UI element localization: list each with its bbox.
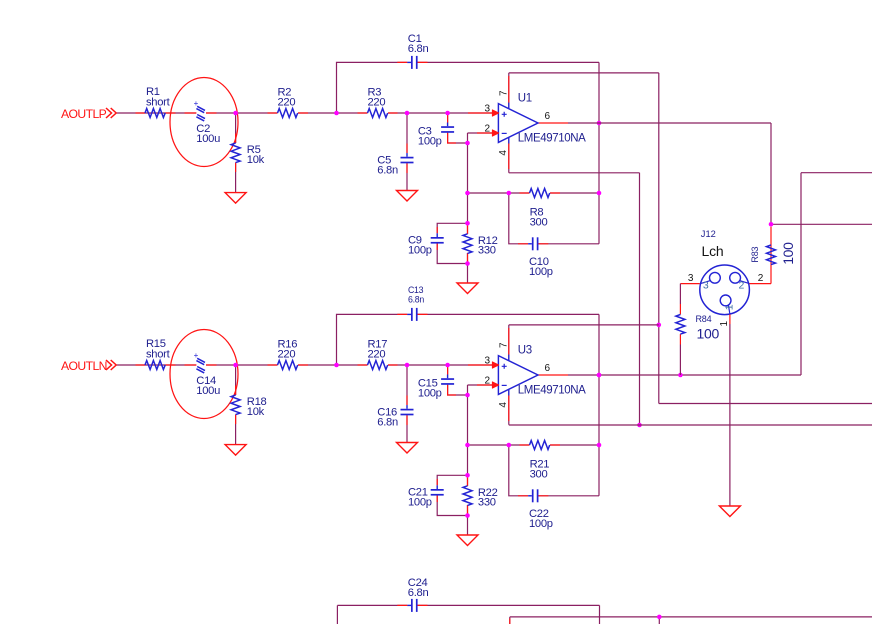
wire V- vertical — [639, 173, 641, 425]
wire C16 branch — [406, 365, 408, 443]
capacitor C16 — [377, 405, 413, 428]
pins C5 — [406, 144, 408, 174]
svg-text:330: 330 — [478, 496, 496, 508]
pins R12 — [467, 224, 469, 263]
svg-text:2: 2 — [739, 280, 745, 292]
pins R84 — [679, 304, 681, 345]
ground — [719, 506, 740, 517]
capacitor C13 — [407, 285, 424, 321]
svg-text:100p: 100p — [408, 244, 432, 256]
resistor R2 — [278, 87, 298, 118]
pins C21 — [436, 479, 438, 502]
svg-text:10k: 10k — [247, 406, 265, 418]
pins R21 — [520, 444, 561, 446]
pins R17 — [358, 364, 398, 366]
ground — [225, 445, 246, 456]
wire output net to right edge — [771, 223, 872, 225]
svg-text:7: 7 — [498, 90, 509, 96]
wire — [298, 364, 368, 366]
wire U1 output to J12 — [568, 122, 771, 124]
svg-text:R84: R84 — [696, 314, 712, 324]
resistor R21 — [530, 441, 550, 481]
wire output feedback vertical — [598, 123, 600, 244]
port chevron AOUTLP — [106, 108, 116, 118]
svg-text:220: 220 — [278, 349, 296, 361]
junction — [507, 443, 512, 448]
wire C13 bypass loop — [337, 314, 600, 375]
capacitor C21 — [408, 485, 444, 508]
port chevron AOUTLN — [106, 360, 116, 370]
pins C10 — [518, 243, 548, 245]
capacitor C14 polarized — [194, 351, 220, 397]
wire R84 to output net — [679, 345, 681, 376]
svg-text:100p: 100p — [408, 496, 432, 508]
wire C5 branch — [406, 113, 408, 191]
svg-text:100p: 100p — [529, 266, 553, 278]
svg-text:Lch: Lch — [702, 243, 724, 259]
svg-text:4: 4 — [498, 150, 509, 156]
svg-text:100: 100 — [780, 242, 796, 265]
svg-text:LME49710NA: LME49710NA — [518, 384, 586, 396]
junction — [233, 111, 238, 116]
svg-text:AOUTLP: AOUTLP — [61, 107, 107, 121]
svg-text:3: 3 — [485, 104, 491, 115]
wire to op-amp pin 2 — [468, 132, 499, 134]
junction — [637, 423, 642, 428]
pin7 red stub ch3 — [509, 619, 511, 624]
capacitor C3 — [418, 123, 454, 148]
wire inverting node vertical — [467, 385, 469, 535]
junction — [445, 111, 450, 116]
pins C13 — [397, 313, 427, 315]
pins R16 — [268, 364, 309, 366]
svg-text:100: 100 — [697, 326, 720, 342]
svg-text:4: 4 — [498, 402, 509, 408]
capacitor C1 — [407, 33, 428, 69]
pins R5 — [235, 134, 237, 173]
junction — [465, 443, 470, 448]
resistor R1 — [145, 86, 171, 117]
pin J12-1 stub — [729, 314, 731, 324]
pins C15 — [448, 366, 456, 396]
svg-text:220: 220 — [278, 97, 296, 109]
wire U3 pin7 to V+ — [509, 324, 659, 326]
wire op-amp pin 7 stub — [508, 73, 510, 109]
wire — [298, 112, 368, 114]
junction — [445, 363, 450, 368]
pins R1 — [136, 112, 176, 114]
svg-text:U3: U3 — [518, 345, 532, 357]
pin 3 wire — [468, 364, 498, 366]
pins C22 — [518, 495, 548, 497]
svg-text:3: 3 — [485, 356, 491, 367]
ground — [397, 443, 418, 454]
wire to R84 — [679, 284, 681, 304]
svg-text:+: + — [194, 99, 199, 108]
connector J12 XLR — [700, 265, 750, 315]
op-amp U3 — [485, 342, 587, 408]
wire C3 top lead — [447, 113, 449, 123]
wire output feedback vertical — [598, 375, 600, 496]
junction — [465, 473, 470, 478]
resistor R83 — [767, 245, 776, 265]
wire U3 pin4 / V- rail — [509, 424, 872, 426]
junction — [405, 363, 410, 368]
svg-text:AOUTLN: AOUTLN — [61, 359, 107, 373]
svg-text:300: 300 — [530, 216, 548, 228]
wire U1 pin4 V- bottom — [509, 172, 640, 174]
resistor R5 — [231, 143, 265, 166]
pin J12-3 stub — [680, 283, 699, 285]
junction — [769, 222, 774, 227]
resistor R8 — [530, 189, 550, 229]
pins C2 — [185, 112, 217, 114]
pins R3 — [358, 112, 398, 114]
pin 6 output stub — [538, 122, 568, 124]
pins C3 — [448, 114, 456, 144]
wire Rch output to right edge — [801, 172, 872, 174]
pins R15 — [136, 364, 176, 366]
resistor R84 — [676, 315, 685, 335]
svg-text:short: short — [146, 96, 171, 108]
svg-text:R83: R83 — [750, 246, 760, 262]
pin 7 blue inner — [508, 355, 510, 361]
wire C24 loop — [337, 605, 599, 624]
resistor R18 — [231, 395, 266, 418]
wire R21 feedback — [468, 444, 600, 446]
pin 6 output stub — [538, 374, 568, 376]
svg-text:3: 3 — [688, 273, 694, 284]
junction — [657, 323, 662, 328]
wire C15 top lead — [447, 365, 449, 375]
pins R22 — [467, 476, 469, 515]
wire AOUTLN input line — [117, 364, 278, 366]
svg-text:6.8n: 6.8n — [408, 295, 424, 305]
pins C9 — [436, 227, 438, 250]
svg-text:1: 1 — [723, 304, 735, 310]
svg-text:2: 2 — [758, 273, 764, 284]
svg-text:330: 330 — [478, 244, 496, 256]
junction — [597, 373, 602, 378]
wire R5 branch — [235, 113, 237, 193]
wire C9 loop — [437, 223, 467, 263]
pin 4 blue inner — [508, 389, 510, 395]
wire output corner down — [770, 123, 772, 224]
junction — [465, 221, 470, 226]
wire output corner up — [800, 173, 802, 375]
wire ch3 V+ branch — [658, 617, 660, 624]
junction — [465, 191, 470, 196]
ellipse marker around C14 — [170, 330, 238, 419]
junction — [405, 111, 410, 116]
capacitor C10 — [528, 237, 553, 278]
junction — [597, 121, 602, 126]
junction — [334, 363, 339, 368]
wire op-amp pin 4 stub — [508, 137, 510, 173]
wire U1 pin7 V+ top — [509, 72, 659, 74]
ground — [397, 191, 418, 202]
pins C16 — [406, 396, 408, 426]
wire C1 bypass loop — [337, 62, 600, 123]
wire op-amp pin 7 stub — [508, 325, 510, 361]
svg-text:100u: 100u — [196, 385, 220, 397]
pins R8 — [520, 192, 561, 194]
junction — [657, 615, 662, 620]
resistor R16 — [278, 339, 298, 370]
capacitor C15 — [418, 375, 454, 400]
pin 7 red stub — [508, 328, 510, 355]
wire C3 bottom lead — [448, 133, 468, 143]
wire to op-amp pin 3 — [388, 364, 498, 366]
wire to op-amp pin 2 — [468, 384, 499, 386]
wire C10 loop — [509, 193, 599, 244]
wire C21 loop — [437, 475, 467, 515]
wire ch3 branch down — [336, 605, 338, 624]
wire C15 bottom lead — [448, 385, 468, 395]
svg-text:6.8n: 6.8n — [377, 416, 398, 428]
pins C14 — [185, 364, 217, 366]
svg-text:300: 300 — [530, 468, 548, 480]
svg-text:6: 6 — [545, 363, 551, 374]
wire V+ rail to right edge — [659, 403, 872, 405]
junction — [334, 111, 339, 116]
ground — [225, 193, 246, 204]
svg-text:LME49710NA: LME49710NA — [518, 132, 586, 144]
pin 4 red stub — [508, 144, 510, 170]
wire V+ vertical — [658, 73, 660, 404]
junction — [597, 373, 602, 378]
wire ch3 V+ line — [510, 616, 872, 618]
ground — [457, 283, 478, 294]
pins C24 — [397, 604, 427, 606]
svg-text:1: 1 — [719, 321, 730, 327]
capacitor C5 — [377, 153, 413, 176]
pin 2 wire — [477, 132, 498, 134]
resistor R15 — [145, 338, 171, 369]
ellipse marker around C2 — [170, 78, 238, 167]
svg-text:100p: 100p — [529, 518, 553, 530]
svg-text:+: + — [194, 351, 199, 360]
wire R8 feedback — [468, 192, 600, 194]
pin 7 red stub — [508, 76, 510, 103]
op-amp U1 — [485, 90, 587, 156]
capacitor C2 polarized — [194, 99, 220, 145]
svg-text:220: 220 — [368, 97, 386, 109]
wire ch3 pin7 stub — [509, 617, 511, 624]
pin 4 blue inner — [508, 137, 510, 143]
junction — [597, 443, 602, 448]
svg-text:2: 2 — [485, 376, 491, 387]
wire C22 loop — [509, 445, 599, 496]
junction — [465, 393, 470, 398]
svg-text:6.8n: 6.8n — [377, 164, 398, 176]
pin 2 wire — [477, 384, 498, 386]
pins R18 — [235, 386, 237, 425]
wire op-amp pin 4 stub — [508, 389, 510, 425]
ground — [457, 535, 478, 546]
pins R2 — [268, 112, 309, 114]
wire AOUTLP input line — [117, 112, 278, 114]
svg-text:U1: U1 — [518, 93, 532, 105]
junction — [678, 373, 683, 378]
wire to op-amp pin 3 — [388, 112, 498, 114]
svg-text:C13: C13 — [408, 285, 424, 295]
svg-text:100u: 100u — [196, 133, 220, 145]
capacitor C9 — [408, 233, 444, 256]
wire inverting node vertical — [467, 133, 469, 283]
resistor R17 — [368, 339, 388, 370]
pin 4 red stub — [508, 396, 510, 422]
svg-text:3: 3 — [703, 280, 709, 292]
wire U3 output — [568, 374, 801, 376]
svg-text:100p: 100p — [418, 136, 442, 148]
wire J12 pin1 to ground — [729, 324, 731, 506]
junction — [507, 191, 512, 196]
wire R18 branch — [235, 365, 237, 445]
svg-text:220: 220 — [368, 349, 386, 361]
pin 7 blue inner — [508, 103, 510, 109]
junction — [465, 261, 470, 266]
svg-text:2: 2 — [485, 124, 491, 135]
svg-text:6.8n: 6.8n — [408, 587, 429, 599]
resistor R3 — [368, 87, 388, 118]
svg-text:6.8n: 6.8n — [408, 43, 429, 55]
junction — [465, 513, 470, 518]
resistor R12 — [463, 234, 498, 257]
svg-text:J12: J12 — [701, 229, 716, 239]
pin 3 wire — [468, 112, 498, 114]
svg-text:6: 6 — [545, 111, 551, 122]
capacitor C24 — [407, 577, 428, 612]
svg-text:100p: 100p — [418, 388, 442, 400]
svg-text:short: short — [146, 348, 171, 360]
wire R83 segment — [770, 245, 772, 265]
pins C1 — [397, 61, 427, 63]
junction — [465, 141, 470, 146]
resistor R22 — [463, 486, 498, 509]
capacitor C22 — [528, 489, 553, 530]
svg-text:10k: 10k — [247, 154, 265, 166]
svg-text:7: 7 — [498, 342, 509, 348]
junction — [597, 191, 602, 196]
junction — [233, 363, 238, 368]
pins R83 — [749, 227, 771, 284]
